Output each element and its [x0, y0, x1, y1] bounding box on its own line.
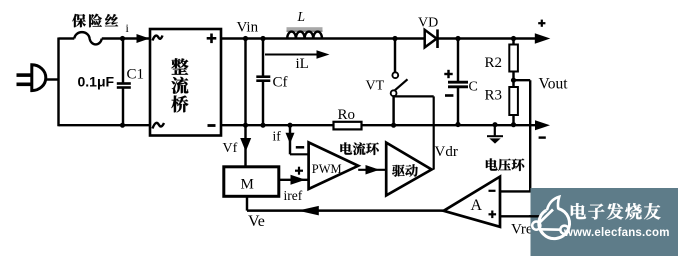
svg-text:R3: R3 — [485, 88, 503, 104]
svg-text:Cf: Cf — [273, 75, 288, 91]
svg-text:if: if — [273, 129, 282, 144]
svg-text:A: A — [471, 197, 483, 214]
svg-text:iref: iref — [284, 188, 303, 203]
svg-text:Vin: Vin — [237, 20, 259, 36]
svg-text:VT: VT — [366, 79, 385, 94]
svg-text:R2: R2 — [485, 55, 503, 71]
svg-text:C1: C1 — [127, 67, 145, 83]
svg-text:L: L — [297, 9, 306, 24]
svg-text:VD: VD — [418, 16, 438, 31]
svg-text:Vf: Vf — [223, 141, 238, 156]
svg-text:iL: iL — [296, 56, 309, 72]
svg-text:Vdr: Vdr — [435, 144, 458, 160]
svg-text:Ro: Ro — [338, 107, 356, 123]
svg-text:PWM: PWM — [312, 162, 342, 176]
svg-text:Vout: Vout — [539, 76, 569, 93]
svg-text:C: C — [469, 80, 478, 95]
svg-text:M: M — [241, 177, 254, 193]
svg-text:Ve: Ve — [248, 213, 265, 230]
svg-text:0.1μF: 0.1μF — [78, 74, 115, 90]
svg-text:www.elecfans.com: www.elecfans.com — [563, 227, 670, 239]
